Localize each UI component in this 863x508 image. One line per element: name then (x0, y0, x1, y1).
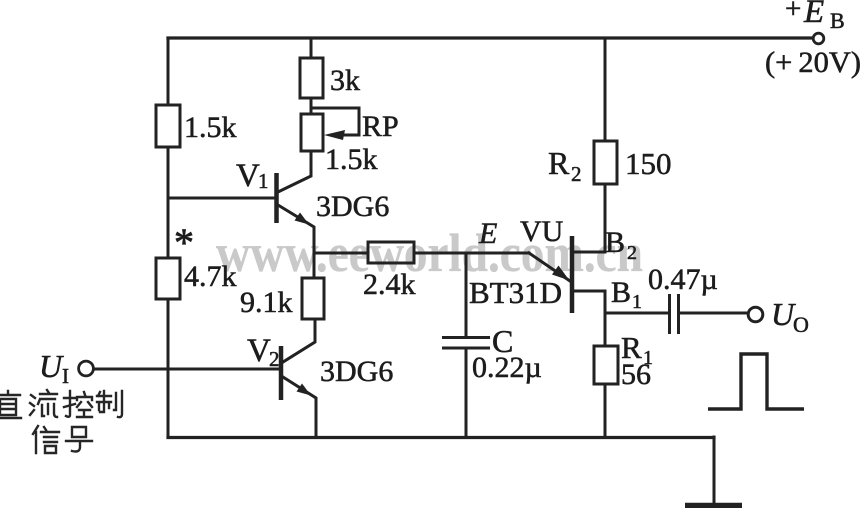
wire ground drop (713, 437, 716, 505)
wire E horizontal left of 2.4k (314, 252, 368, 255)
wire top supply rail (168, 36, 811, 39)
potentiometer RP body (301, 114, 323, 151)
capacitor 0.47u plates (670, 294, 679, 334)
svg-text:*: * (174, 220, 194, 265)
svg-text:O: O (793, 312, 809, 337)
svg-text:3DG6: 3DG6 (316, 190, 389, 223)
wire UJT emitter diagonal (529, 253, 570, 281)
wire V2 base input (93, 368, 279, 371)
label B2 (605, 226, 637, 264)
label chinese char hao (number) (66, 427, 92, 452)
terminal +EB circle (813, 33, 824, 44)
wire capacitor to output terminal (680, 312, 747, 315)
terminal UO output circle (748, 307, 763, 322)
svg-text:V: V (247, 333, 271, 369)
wire bottom rail (168, 436, 714, 439)
wire capacitor C drop (465, 253, 468, 337)
label R2 (548, 145, 582, 186)
svg-text:0.47µ: 0.47µ (648, 263, 718, 296)
svg-text:RP: RP (362, 110, 399, 143)
svg-text:3k: 3k (330, 64, 360, 97)
potentiometer RP arrowhead (324, 130, 345, 140)
svg-text:1: 1 (258, 169, 269, 193)
wire RP bottom to V1 collector (278, 151, 311, 192)
wire R1 to bottom rail (604, 384, 607, 437)
wire left vertical (167, 38, 170, 437)
wire V1 emitter to node E column (278, 205, 314, 253)
svg-text:B: B (605, 226, 625, 259)
svg-text:3DG6: 3DG6 (320, 355, 393, 388)
svg-text:56: 56 (621, 358, 651, 391)
svg-text:(+ 20V): (+ 20V) (765, 46, 861, 79)
svg-text:2: 2 (571, 162, 582, 186)
svg-text:R: R (548, 145, 570, 181)
label chinese char kong (control) (64, 391, 92, 417)
svg-text:E: E (478, 217, 497, 250)
svg-text:1.5k: 1.5k (325, 143, 378, 176)
terminal UI input circle (79, 361, 94, 376)
ground bar (685, 503, 742, 508)
resistor 3k (300, 58, 323, 98)
resistor R1 (594, 346, 618, 384)
label V1 (236, 158, 269, 194)
UJT VU emitter arrowhead (552, 266, 570, 281)
label B1 (611, 276, 642, 313)
resistor 4.7k (156, 258, 180, 299)
UJT VU base bar (570, 236, 575, 313)
pulse waveform symbol (708, 354, 804, 409)
label chinese char liu (flow) (30, 390, 57, 417)
svg-text:VU: VU (520, 215, 564, 248)
wire R2 to B2 (604, 184, 607, 252)
svg-text:I: I (62, 364, 69, 388)
label V2 (247, 333, 280, 371)
wire UJT B2 (573, 251, 605, 254)
wire V1 base (168, 197, 275, 200)
wire B1 down through tap to R1 (604, 291, 607, 346)
svg-text:2: 2 (627, 242, 637, 264)
potentiometer RP wiper loop (312, 108, 359, 135)
svg-text:2: 2 (269, 347, 280, 371)
wire R2 drop from rail (604, 38, 607, 141)
transistor V1 emitter arrowhead (295, 213, 310, 225)
wire 9.1k to V2 collector (283, 319, 315, 362)
svg-text:4.7k: 4.7k (184, 260, 237, 293)
resistor 1.5k left (156, 105, 180, 147)
transistor V2 emitter arrowhead (297, 384, 312, 396)
label UI (39, 348, 69, 388)
svg-text:B: B (830, 8, 845, 33)
wire E horizontal right of 2.4k (414, 252, 529, 255)
svg-text:+: + (785, 0, 801, 25)
svg-text:1: 1 (632, 291, 642, 313)
svg-text:0.22µ: 0.22µ (472, 351, 542, 384)
label +EB (785, 0, 845, 33)
transistor V1 base bar (274, 173, 279, 223)
wire UJT B1 (573, 290, 605, 293)
label chinese char zhi4 (make) (97, 391, 122, 417)
wire node E column down to 9.1k (313, 253, 316, 278)
svg-text:150: 150 (625, 146, 672, 181)
capacitor C plates (442, 338, 490, 349)
wire output tap to capacitor (605, 312, 667, 315)
svg-text:U: U (39, 348, 64, 384)
label UO (771, 296, 809, 337)
resistor 9.1k (302, 278, 324, 319)
svg-text:BT31D: BT31D (469, 275, 562, 310)
svg-text:V: V (236, 158, 260, 194)
label chinese char zhi (straight) (0, 391, 21, 418)
svg-text:9.1k: 9.1k (240, 286, 293, 319)
wire V2 emitter to bottom rail (283, 377, 316, 437)
transistor V2 base bar (279, 346, 284, 400)
svg-text:B: B (611, 276, 631, 309)
label chinese char xin (letter) (33, 426, 59, 453)
label R1 (621, 330, 653, 369)
resistor R2 (594, 141, 617, 184)
svg-text:1.5k: 1.5k (184, 111, 237, 144)
svg-text:2.4k: 2.4k (363, 268, 416, 301)
svg-text:E: E (803, 0, 824, 30)
wire capacitor C to bottom rail (465, 348, 468, 437)
wire 3k drop from rail (310, 38, 313, 58)
resistor 2.4k horizontal (368, 242, 414, 263)
wire 3k to RP (310, 98, 313, 114)
